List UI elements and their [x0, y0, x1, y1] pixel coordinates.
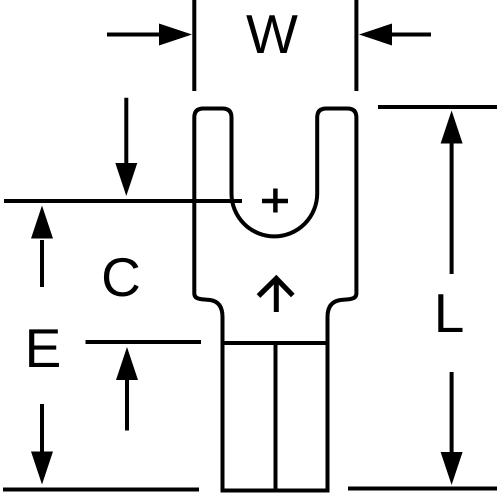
svg-text:L: L	[434, 282, 465, 344]
svg-text:W: W	[246, 3, 298, 65]
svg-text:C: C	[101, 246, 141, 308]
svg-text:E: E	[25, 317, 62, 379]
